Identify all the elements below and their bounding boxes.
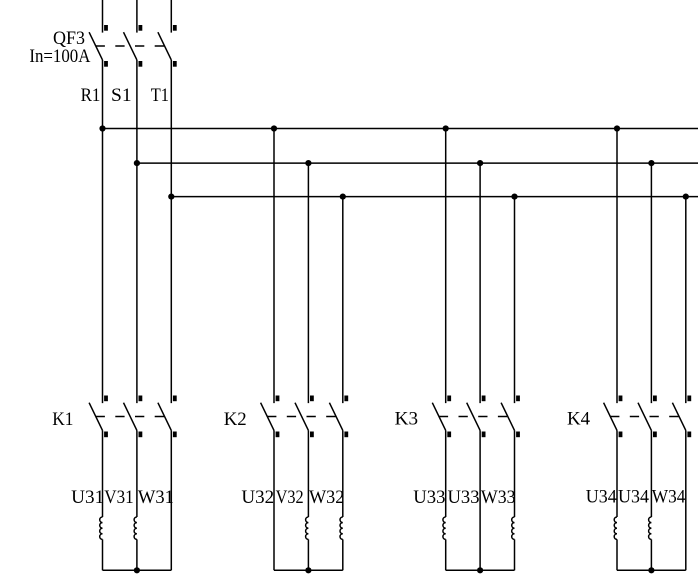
svg-text:S1: S1 <box>111 85 132 106</box>
svg-text:U32: U32 <box>241 487 274 508</box>
svg-text:K4: K4 <box>567 409 590 430</box>
svg-text:V32: V32 <box>276 487 304 508</box>
svg-text:K3: K3 <box>395 409 418 430</box>
svg-text:V31: V31 <box>104 487 133 508</box>
svg-text:U34: U34 <box>586 486 617 507</box>
svg-text:U33: U33 <box>448 487 480 508</box>
svg-text:W31: W31 <box>138 487 174 508</box>
svg-text:K2: K2 <box>224 409 247 430</box>
svg-text:K1: K1 <box>52 409 73 430</box>
svg-text:W32: W32 <box>309 487 344 508</box>
svg-text:U34: U34 <box>618 486 649 507</box>
svg-text:W33: W33 <box>481 487 516 508</box>
svg-text:U31: U31 <box>71 487 104 508</box>
svg-text:T1: T1 <box>151 85 169 106</box>
svg-text:R1: R1 <box>81 85 101 106</box>
svg-text:U33: U33 <box>413 487 445 508</box>
svg-text:In=100A: In=100A <box>29 46 90 67</box>
svg-text:W34: W34 <box>652 486 686 507</box>
